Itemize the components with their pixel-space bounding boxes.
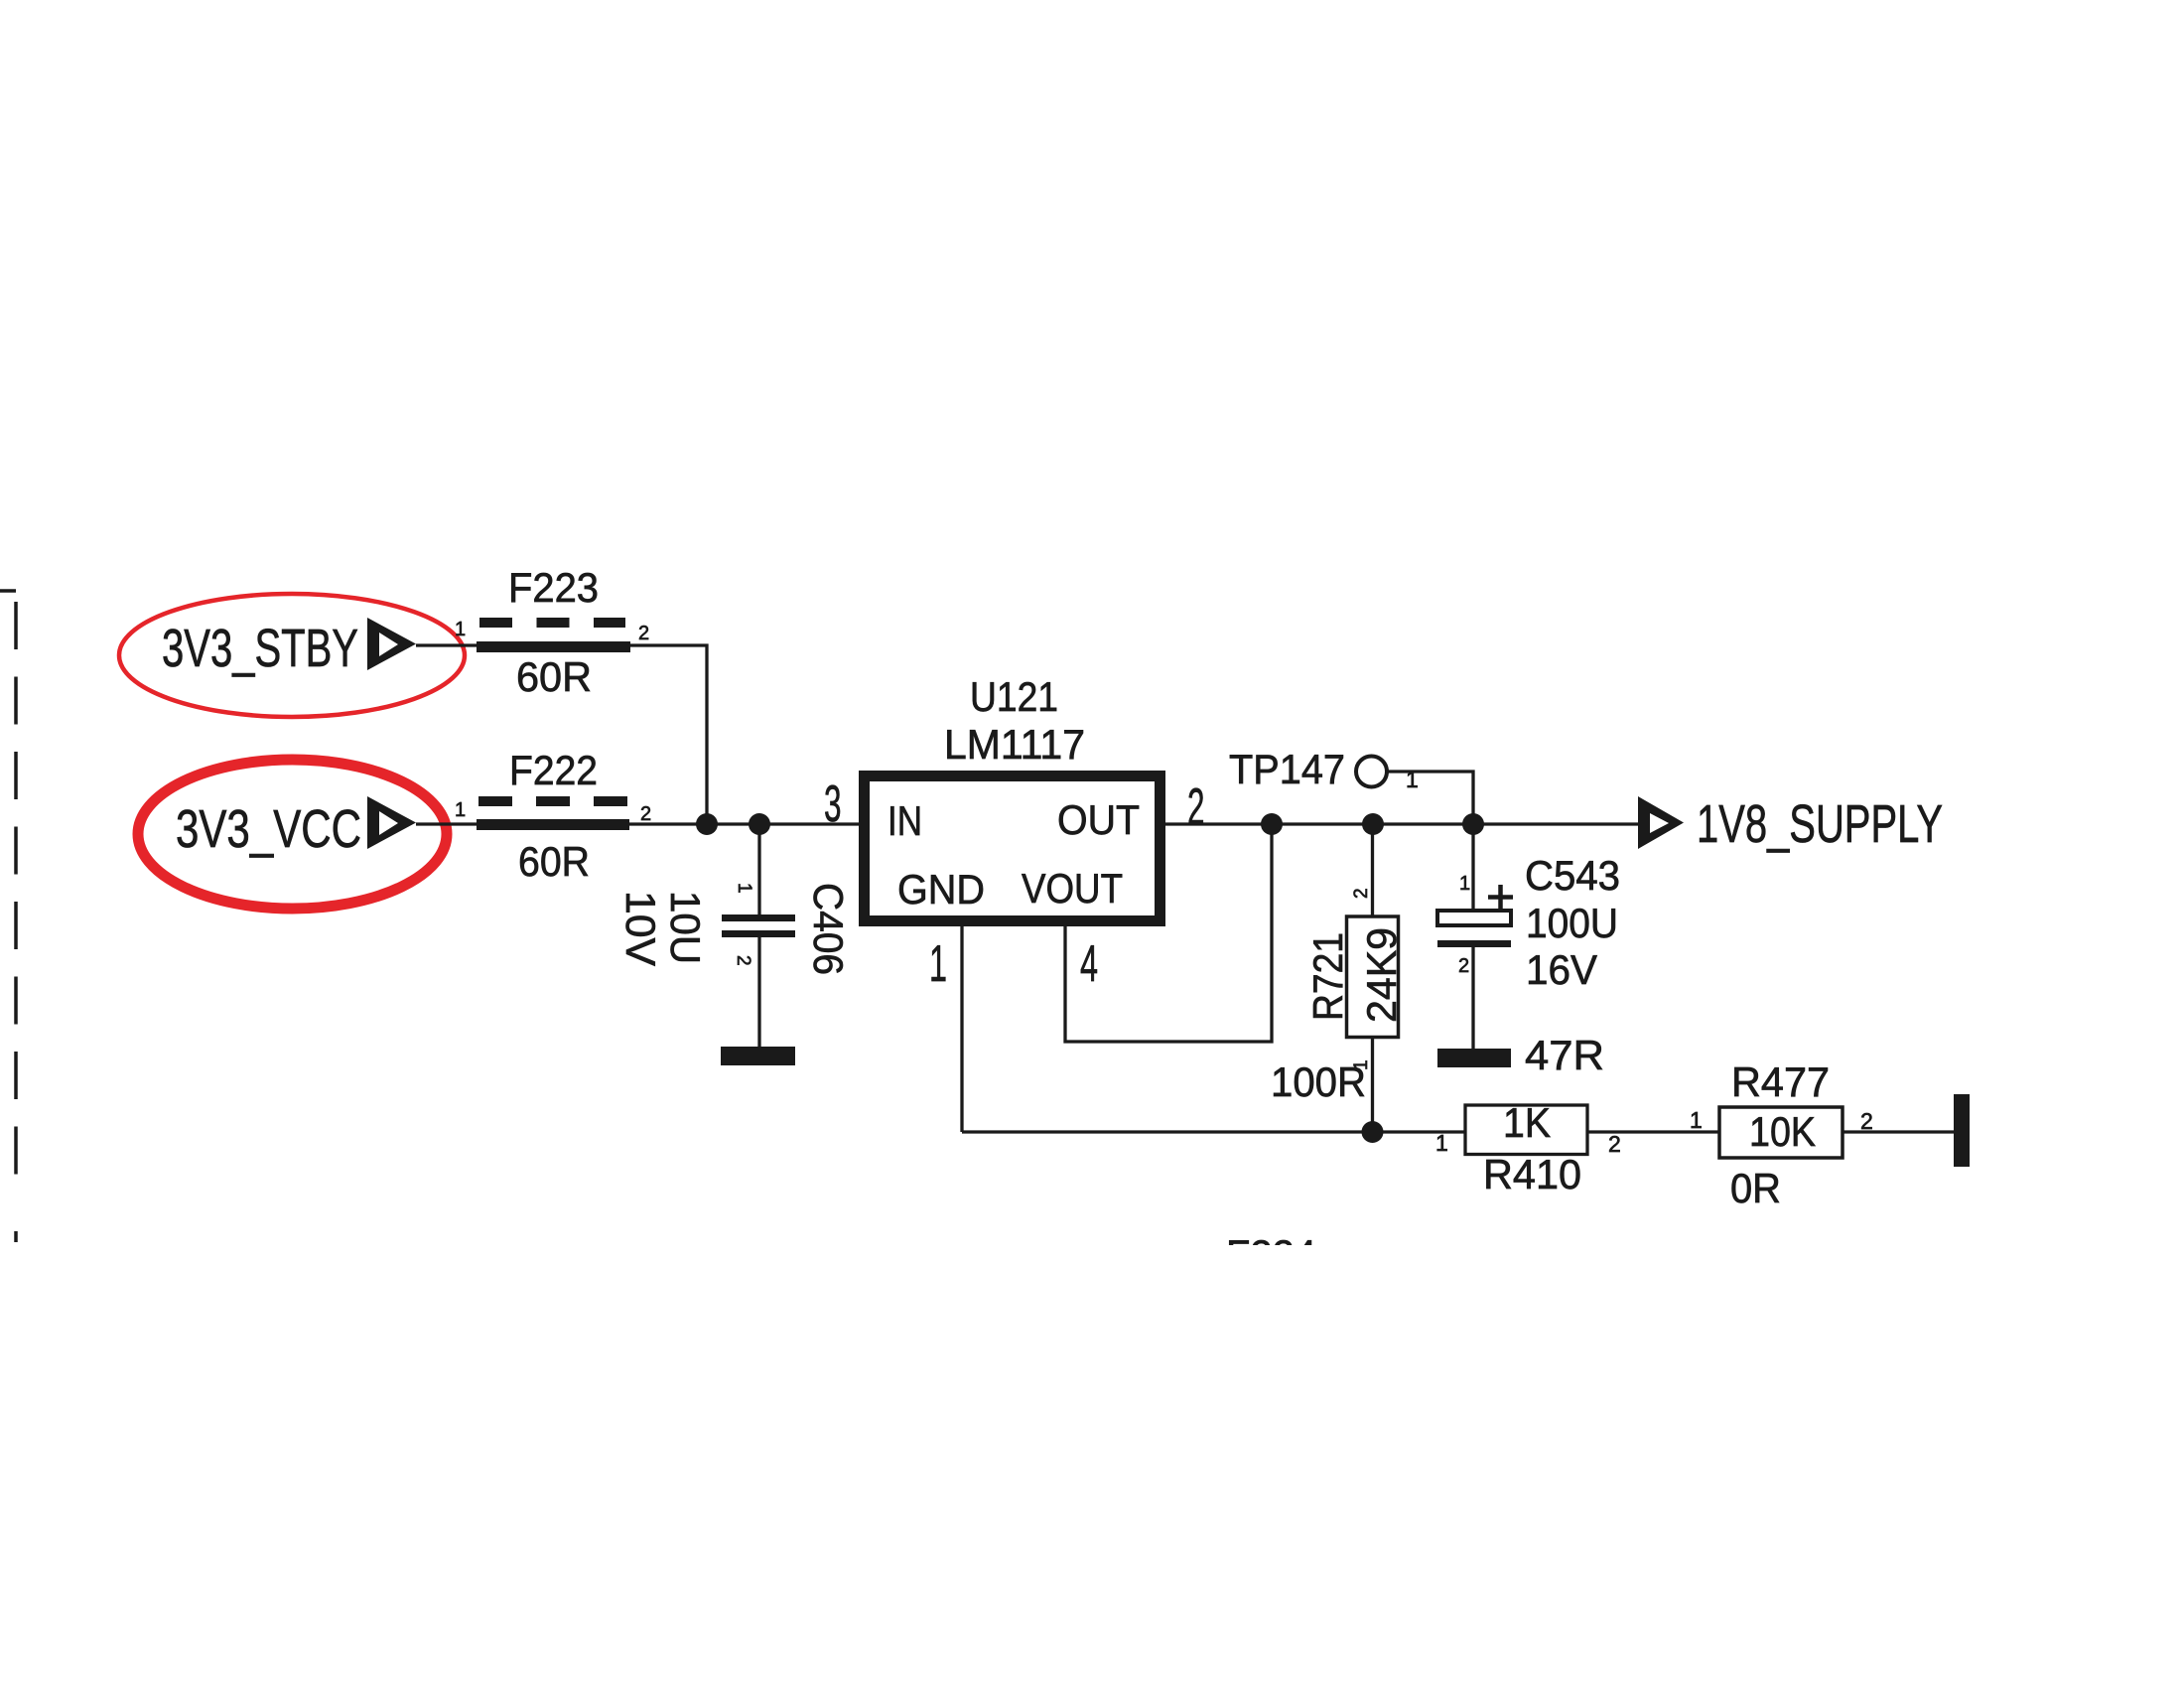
svg-text:1: 1 [455, 799, 466, 821]
wire 3V3_STBY port to F223 pin 1 [416, 643, 477, 646]
annotation ellipse around 3V3_STBY [119, 594, 465, 717]
port symbol 3V3_VCC [367, 796, 416, 849]
wire TP147 to output net [1387, 772, 1473, 824]
wire C406 pin 1 [757, 824, 760, 914]
resistor R410 body [1465, 1105, 1587, 1155]
svg-text:47R: 47R [1525, 1032, 1604, 1078]
wire U121 GND pin 1 down [960, 926, 963, 1132]
svg-text:C406: C406 [805, 883, 852, 975]
wire R410 pin 2 to R477 pin 1 [1587, 1130, 1719, 1133]
svg-text:LM1117: LM1117 [944, 721, 1085, 768]
svg-text:3: 3 [824, 775, 842, 833]
svg-text:100R: 100R [1271, 1058, 1366, 1105]
ground bar (C406) [721, 1047, 795, 1065]
svg-text:1: 1 [455, 619, 466, 640]
svg-text:10K: 10K [1749, 1108, 1816, 1155]
svg-text:10V: 10V [617, 891, 664, 966]
svg-text:100U: 100U [1526, 900, 1618, 946]
svg-text:10U: 10U [662, 891, 709, 964]
svg-text:VOUT: VOUT [1022, 865, 1123, 912]
junction dot C543 branch [1462, 813, 1484, 835]
test point TP147 [1356, 757, 1387, 787]
sheet border dashed line [0, 591, 16, 1242]
wire GND net to R410 pin 1 [962, 1130, 1465, 1133]
wire R477 pin 2 to ground [1843, 1130, 1954, 1133]
junction dot F223/F222 nets [696, 813, 718, 835]
svg-text:R721: R721 [1304, 932, 1351, 1021]
svg-text:1V8_SUPPLY: 1V8_SUPPLY [1697, 794, 1943, 854]
wire C543 pin 2 to ground [1471, 947, 1474, 1049]
svg-text:2: 2 [638, 623, 649, 644]
svg-text:60R: 60R [518, 838, 590, 885]
svg-text:2: 2 [1351, 888, 1372, 899]
fuse F222 [477, 801, 629, 825]
svg-text:1: 1 [1435, 1130, 1448, 1156]
capacitor C543 (electrolytic) [1437, 911, 1511, 947]
junction dot R721 branch [1362, 813, 1384, 835]
wire U121 VOUT pin 4 feedback [1065, 824, 1272, 1042]
svg-text:2: 2 [733, 955, 753, 966]
port symbol 1V8_SUPPLY [1638, 796, 1684, 849]
svg-text:C543: C543 [1525, 852, 1620, 899]
svg-text:2: 2 [1187, 778, 1205, 836]
svg-text:3V3_VCC: 3V3_VCC [176, 799, 361, 859]
svg-text:1: 1 [1406, 767, 1419, 792]
svg-text:60R: 60R [516, 653, 592, 700]
port symbol 3V3_STBY [367, 618, 416, 670]
junction dot VOUT feedback [1261, 813, 1283, 835]
wire R721 pin 1 down to GND net [1371, 1038, 1374, 1133]
svg-text:R410: R410 [1483, 1151, 1581, 1197]
svg-text:2: 2 [1458, 955, 1469, 977]
partial label F224 (clipped at image bottom) [1226, 1231, 1316, 1278]
svg-text:4: 4 [1080, 935, 1098, 993]
svg-text:0R: 0R [1730, 1165, 1781, 1211]
svg-text:24K9: 24K9 [1358, 927, 1405, 1023]
wire C543 pin 1 [1471, 824, 1474, 911]
svg-text:1: 1 [1459, 873, 1470, 895]
svg-text:R477: R477 [1731, 1058, 1830, 1105]
svg-text:2: 2 [1608, 1131, 1621, 1157]
regulator U121 body [865, 776, 1160, 921]
wire C406 pin 2 to ground [757, 937, 760, 1048]
wire U121 OUT to 1V8_SUPPLY [1165, 822, 1638, 825]
svg-text:2: 2 [640, 803, 651, 825]
svg-text:1: 1 [1690, 1107, 1703, 1133]
wire F222 pin 2 to U121 IN [629, 822, 859, 825]
junction dot R721 to GND net [1362, 1121, 1384, 1143]
svg-text:OUT: OUT [1057, 796, 1140, 843]
svg-text:TP147: TP147 [1229, 746, 1345, 792]
fuse F223 [477, 623, 630, 647]
svg-text:1K: 1K [1503, 1099, 1551, 1146]
ground bar (right, vertical) [1954, 1094, 1970, 1167]
annotation ellipse around 3V3_VCC [138, 760, 447, 909]
plus sign (C543 polarity) [1488, 885, 1513, 910]
svg-text:F222: F222 [509, 747, 598, 793]
svg-text:GND: GND [897, 866, 985, 913]
svg-text:2: 2 [1860, 1108, 1873, 1134]
wire F223 pin 2 down to VCC net [630, 645, 707, 824]
svg-text:1: 1 [734, 883, 754, 894]
wire R721 pin 2 [1371, 824, 1374, 916]
capacitor C406 [722, 914, 795, 937]
svg-text:U121: U121 [970, 673, 1058, 720]
wire 3V3_VCC port to F222 pin 1 [416, 822, 477, 825]
svg-text:1: 1 [929, 935, 947, 993]
svg-text:IN: IN [887, 797, 922, 844]
resistor R477 body [1719, 1107, 1843, 1158]
junction dot C406 branch [749, 813, 770, 835]
svg-text:16V: 16V [1526, 946, 1597, 993]
resistor R721 body [1347, 916, 1399, 1038]
svg-text:3V3_STBY: 3V3_STBY [162, 619, 358, 678]
ground bar (C543) [1437, 1049, 1511, 1067]
svg-text:F223: F223 [508, 564, 599, 611]
